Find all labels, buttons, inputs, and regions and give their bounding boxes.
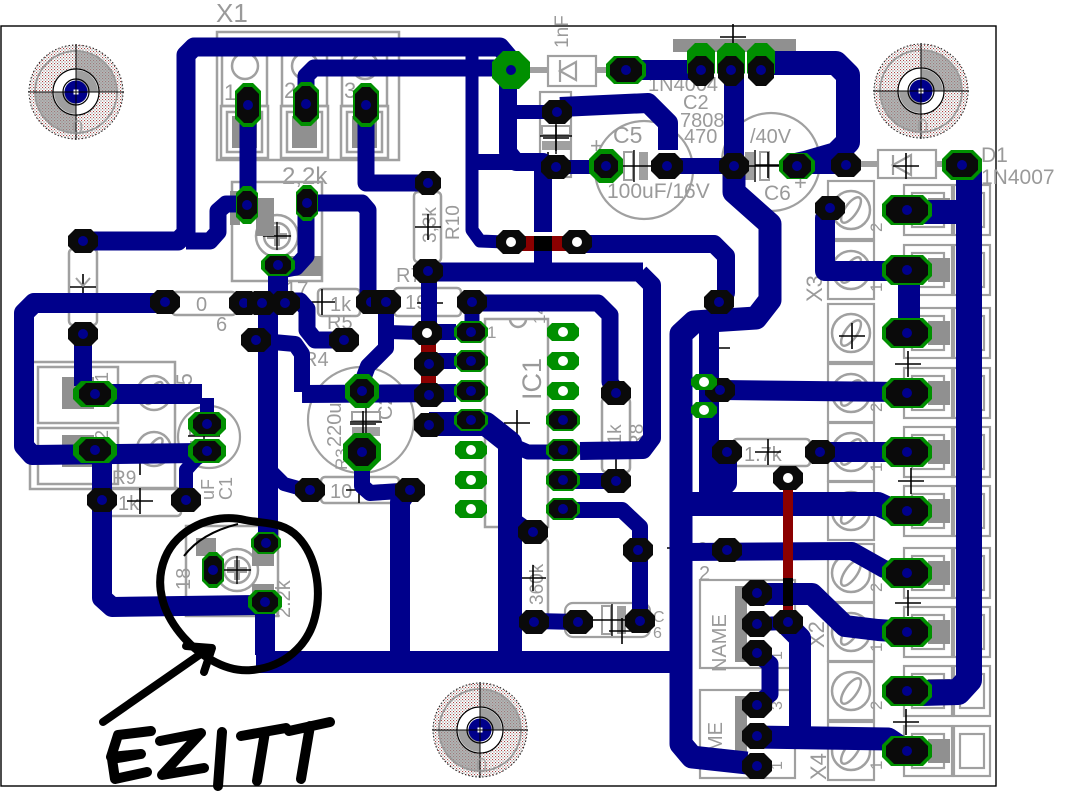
wire net1 trimmer branch bbox=[186, 204, 242, 241]
pad IC1 pin8 bbox=[546, 498, 580, 520]
wire R17 wiper bbox=[266, 264, 278, 543]
wire IC1 row7 bbox=[562, 510, 640, 615]
pad C1 top bbox=[188, 412, 226, 436]
via net1 bbox=[68, 229, 98, 253]
screw terminal y270 bbox=[832, 251, 870, 289]
svg-text:1: 1 bbox=[867, 283, 886, 292]
svg-text:IC1: IC1 bbox=[517, 358, 547, 400]
resistor R7 outline bbox=[394, 288, 461, 316]
screw terminal y333 bbox=[832, 314, 870, 352]
wire P2 branch bbox=[699, 326, 719, 499]
pad C8 right bbox=[625, 609, 655, 633]
drill mark row303 bbox=[309, 289, 335, 315]
pad C6 plus bbox=[779, 153, 815, 179]
pad R5 left bbox=[270, 291, 300, 315]
pad R11 bottom bbox=[519, 610, 549, 634]
screw terminal y691 bbox=[832, 672, 870, 710]
wire X1 pin3 bbox=[366, 106, 420, 183]
wire IC1 row2 bbox=[429, 353, 456, 369]
svg-text:1.7k: 1.7k bbox=[744, 444, 783, 466]
pad X1-1 bbox=[235, 83, 261, 127]
drill mark R11 bbox=[520, 565, 546, 591]
drill mark D1 bbox=[893, 153, 919, 179]
svg-text:1: 1 bbox=[224, 80, 236, 105]
pad X6 y736 bbox=[742, 723, 772, 749]
pad R2 right bbox=[395, 478, 425, 502]
svg-text:2: 2 bbox=[867, 223, 886, 232]
pad IC2-2 bbox=[717, 43, 745, 86]
resistor R2 outline bbox=[321, 477, 399, 503]
wire D1 elbow bbox=[908, 200, 956, 224]
wire right band bbox=[908, 166, 969, 693]
wire band y274 bbox=[427, 263, 643, 282]
drill mark R9 bbox=[127, 488, 153, 514]
wire IC1 row1 bbox=[438, 324, 456, 340]
diode D1 leads bbox=[850, 161, 958, 167]
connector X5 screw slots bbox=[142, 379, 165, 406]
pad X6 y705 bbox=[742, 692, 772, 718]
svg-text:1: 1 bbox=[92, 372, 112, 382]
pad X2 bank y751 bbox=[882, 736, 932, 766]
capacitor C5 circle bbox=[595, 121, 693, 219]
wire net1 main bbox=[83, 47, 511, 241]
pad JP2 bbox=[691, 402, 717, 418]
wire X3 link bbox=[825, 210, 900, 271]
svg-text:6: 6 bbox=[216, 314, 227, 336]
pad IC2-3 bbox=[747, 43, 775, 86]
svg-text:18: 18 bbox=[173, 568, 195, 590]
wire R17 right a bbox=[310, 203, 368, 296]
svg-text:0: 0 bbox=[917, 116, 928, 138]
svg-text:2: 2 bbox=[867, 403, 886, 412]
wire X6 link bbox=[757, 594, 893, 631]
wire X1 pin2 bbox=[306, 68, 502, 86]
drill mark R7 bbox=[417, 290, 443, 316]
pad red column a bbox=[414, 352, 444, 376]
pad D2 cathode bbox=[606, 56, 646, 84]
drill mark C3 bbox=[543, 125, 569, 151]
pad IC1 pin6 bbox=[455, 471, 487, 489]
svg-text:X1: X1 bbox=[216, 0, 248, 28]
via red column bbox=[412, 321, 442, 345]
wire band P2 bbox=[681, 168, 770, 763]
pad C4 plus bbox=[345, 374, 379, 408]
pad IC1 row4 via bbox=[414, 413, 444, 437]
svg-text:3,3k: 3,3k bbox=[420, 207, 441, 243]
annotation arrow bbox=[103, 651, 205, 722]
capacitor C3 symbol bbox=[540, 122, 572, 154]
wire R7 to C4 bbox=[362, 303, 386, 382]
drill mark C5b bbox=[535, 152, 561, 178]
resistor R9 outline bbox=[102, 488, 181, 516]
svg-text:C6: C6 bbox=[764, 182, 791, 205]
drill mark R2 bbox=[346, 477, 372, 503]
wire X3 stub bbox=[898, 272, 920, 331]
svg-text:220u: 220u bbox=[324, 403, 346, 448]
drill mark R12 bbox=[755, 439, 781, 465]
pad R6 left bbox=[150, 290, 180, 314]
via H2b bbox=[623, 538, 653, 562]
pad R6 right bbox=[229, 291, 259, 315]
wire net1 thin branch bbox=[472, 52, 505, 242]
svg-text:6: 6 bbox=[653, 625, 662, 642]
wire big vertical mid bbox=[400, 493, 406, 658]
capacitor C3 outline bbox=[540, 92, 571, 177]
wire via up bbox=[262, 341, 302, 392]
pad X6 y766 bbox=[742, 753, 772, 779]
svg-text:2: 2 bbox=[699, 563, 710, 585]
drill mark C4 bbox=[350, 411, 376, 437]
svg-text:D1: D1 bbox=[981, 144, 1008, 167]
svg-text:1: 1 bbox=[867, 643, 886, 652]
wire IC2 pin2 down bbox=[724, 73, 744, 158]
pad X6 y624 bbox=[742, 611, 772, 637]
pad C5 minus bbox=[651, 153, 683, 179]
wire y162 bbox=[474, 154, 543, 170]
wire row303 to R8 bbox=[474, 303, 616, 391]
wire IC2 pin3 bbox=[763, 63, 848, 165]
wire y452 bbox=[820, 442, 900, 462]
drill mark P2 bbox=[704, 335, 730, 361]
pad R2 left bbox=[295, 478, 325, 502]
pad IC1 pin12 bbox=[547, 382, 579, 400]
resistor R10 outline bbox=[414, 192, 441, 262]
red trace R-column bbox=[421, 343, 436, 405]
capacitor C1 circle bbox=[178, 406, 240, 468]
mounting hole bottom bbox=[432, 682, 528, 778]
connector bank fills bbox=[928, 198, 950, 763]
pad R12 left bbox=[712, 440, 742, 464]
wire C3 bottom bbox=[558, 160, 597, 174]
pad C4 minus bbox=[343, 433, 381, 471]
svg-text:NAME: NAME bbox=[709, 614, 731, 672]
pad X2 bank y452 bbox=[882, 437, 932, 467]
drill mark X1 pin2 bbox=[297, 105, 315, 123]
trimmer R17 fills bbox=[230, 191, 322, 276]
op-amp IC1 outline bbox=[485, 319, 548, 527]
pad X2 bank y511 bbox=[882, 496, 932, 526]
trimmer R18 fills bbox=[196, 538, 274, 602]
wire IC1 row1 left bbox=[388, 332, 420, 333]
connector X5 fills bbox=[62, 377, 94, 467]
via P2 bbox=[704, 290, 734, 314]
wire via chain bbox=[579, 244, 726, 301]
drill mark X2c bbox=[895, 590, 921, 616]
pad X1-3 bbox=[353, 83, 379, 127]
pad red2 bottom bbox=[773, 610, 803, 634]
diode D2 leads bbox=[522, 67, 622, 73]
pad R9 left bbox=[87, 488, 117, 512]
pad X2 bank y333 bbox=[882, 318, 932, 348]
svg-text:1nF: 1nF bbox=[552, 15, 573, 48]
trimmer R17 outline bbox=[232, 182, 322, 281]
pad IC1 pin4 bbox=[454, 409, 488, 431]
svg-text:2: 2 bbox=[867, 583, 886, 592]
wire H2 bbox=[686, 551, 905, 573]
drill mark IC2 bbox=[720, 24, 746, 50]
connector X5 outline bbox=[30, 362, 175, 489]
wire row4 chain bbox=[429, 424, 510, 658]
diode D2 outline bbox=[548, 56, 596, 86]
wire row303 b bbox=[262, 295, 285, 311]
via red bottom bbox=[562, 230, 592, 254]
annotation circle bbox=[160, 518, 318, 670]
pad X5-1 bbox=[73, 381, 117, 407]
wire row303 a bbox=[244, 295, 262, 311]
pad D2 anode bbox=[492, 51, 530, 89]
pad IC1 pin2 bbox=[454, 350, 488, 372]
svg-text:1k: 1k bbox=[118, 493, 140, 515]
capacitor C5 symbol bbox=[614, 150, 658, 182]
pad X2 bank y210 bbox=[882, 195, 932, 225]
screw terminal y511 bbox=[832, 492, 870, 530]
wire X6 pads link bbox=[760, 623, 786, 624]
pad R18 top bbox=[251, 532, 281, 554]
wire C4 bottom bbox=[362, 452, 400, 493]
wire X5 pad1 row bbox=[95, 384, 202, 404]
svg-text:1: 1 bbox=[867, 463, 886, 472]
pad R7 left bbox=[371, 290, 401, 314]
pad X2 bank y632 bbox=[882, 617, 932, 647]
svg-text:C1: C1 bbox=[216, 477, 236, 500]
pad D1 anode bbox=[831, 153, 861, 177]
trimmer R18 screw cross bbox=[227, 560, 247, 580]
drill mark X2a bbox=[895, 351, 921, 377]
capacitor C8 outline bbox=[565, 603, 650, 637]
wire X6 bottom H bbox=[757, 737, 903, 749]
pad X2 bank y393 bbox=[882, 378, 932, 408]
pad X1-2 bbox=[293, 82, 319, 126]
pad R1 bottom bbox=[68, 322, 98, 346]
pad IC2-1 bbox=[687, 43, 715, 86]
via red top bbox=[496, 230, 526, 254]
via X3 bbox=[815, 196, 845, 220]
svg-text:R10: R10 bbox=[443, 205, 464, 240]
wire y390 bbox=[722, 390, 900, 392]
pad red column b bbox=[414, 383, 444, 407]
drill mark IC2b bbox=[839, 323, 865, 349]
wire R2 left elbow bbox=[270, 470, 302, 489]
svg-text:470: 470 bbox=[684, 126, 717, 148]
drill mark R10 bbox=[415, 214, 441, 240]
wire left L bbox=[24, 303, 200, 455]
resistor R1 outline bbox=[69, 249, 97, 325]
wire C6 to D1 bbox=[797, 158, 846, 174]
wire C1 link bbox=[200, 398, 214, 420]
screw terminal y393 bbox=[832, 374, 870, 412]
pad X2 bank y691 bbox=[882, 676, 932, 706]
pad R17 wiper bbox=[261, 254, 295, 276]
svg-text:2: 2 bbox=[867, 701, 886, 710]
wire R17 right b bbox=[280, 212, 306, 270]
pad R7 right bbox=[457, 290, 487, 314]
capacitor C8 symbol bbox=[592, 604, 636, 636]
pad R12 right bbox=[805, 440, 835, 464]
pad C3 bottom bbox=[541, 155, 571, 179]
svg-text:C5: C5 bbox=[613, 122, 642, 148]
mounting hole top-right bbox=[873, 43, 969, 139]
pad X2 bank y573 bbox=[882, 558, 932, 588]
svg-text:R9: R9 bbox=[112, 468, 136, 489]
drill mark C6b bbox=[755, 152, 781, 178]
connector X1 outline bbox=[217, 32, 399, 160]
wire C5 to C6 bbox=[667, 158, 734, 174]
wire R11 bottom row bbox=[535, 621, 578, 622]
capacitor C4 circle bbox=[308, 367, 414, 473]
capacitor C1 symbol bbox=[188, 422, 220, 454]
drill mark C8 bbox=[609, 618, 635, 644]
wire R5 chain bbox=[287, 301, 338, 340]
mounting hole top-left bbox=[28, 44, 124, 140]
wire R7 right down bbox=[465, 303, 480, 330]
trimmer R18 outline bbox=[186, 526, 278, 616]
connector X6 fills bbox=[735, 586, 747, 772]
wire R9 link bbox=[186, 453, 205, 500]
pad R5 right bbox=[356, 290, 386, 314]
wire X6 jog bbox=[757, 654, 770, 704]
drill mark X5 bbox=[127, 449, 153, 475]
pad IC1 pin1 bbox=[454, 321, 488, 343]
pad IC1 pin10 bbox=[546, 439, 580, 461]
connector X1 clamp fills bbox=[232, 116, 377, 148]
pad R17 left bbox=[236, 186, 258, 224]
via row3 left bbox=[241, 328, 271, 352]
connector bank X2 X3 X4 outlines bbox=[828, 181, 990, 780]
pad R11 top bbox=[518, 520, 548, 544]
wire X5 branch down bbox=[102, 452, 266, 607]
wire net2 top bbox=[630, 60, 696, 80]
wire band H1 bbox=[672, 504, 906, 511]
svg-text:0: 0 bbox=[476, 755, 487, 777]
svg-text:1N4007: 1N4007 bbox=[981, 166, 1055, 189]
svg-text:1: 1 bbox=[867, 761, 886, 770]
wire IC1 row6 bbox=[563, 473, 613, 489]
wire C3top C5minus bbox=[560, 103, 668, 150]
drill mark IC1 bbox=[504, 410, 530, 436]
wire IC1 row3 bbox=[302, 393, 456, 394]
svg-text:360k: 360k bbox=[527, 563, 548, 605]
wire H3 bottom bbox=[256, 651, 680, 673]
pad IC1 pin11 bbox=[546, 409, 580, 431]
via H2 bbox=[712, 538, 742, 562]
svg-text:10: 10 bbox=[330, 481, 352, 503]
pad R18 wiper bbox=[248, 590, 282, 614]
wire R18 to H3 bbox=[255, 600, 275, 655]
wire band to row5 bbox=[580, 273, 652, 451]
svg-text:0: 0 bbox=[72, 117, 83, 139]
pad R17 right bbox=[296, 185, 318, 221]
pad R10 bottom bbox=[413, 259, 443, 283]
pad C8 left bbox=[563, 610, 593, 634]
pad C3 top bbox=[542, 100, 572, 124]
pad IC1 pin14 bbox=[547, 323, 579, 341]
wire D1 to band bbox=[960, 157, 975, 173]
drill mark X2d bbox=[893, 709, 919, 735]
svg-text:1: 1 bbox=[487, 323, 496, 342]
wire net1 down bbox=[508, 70, 543, 232]
pad X6 y593 bbox=[742, 580, 772, 606]
drill mark R8 bbox=[603, 445, 629, 471]
pad JP1 bbox=[691, 374, 717, 390]
via y390 bbox=[705, 378, 735, 402]
capacitor C6 symbol bbox=[735, 150, 779, 182]
pad X2 bank y270 bbox=[882, 255, 932, 285]
wire row5 branch bbox=[514, 446, 560, 452]
wire net1 under red bbox=[534, 248, 552, 274]
resistor R11 outline bbox=[519, 539, 548, 617]
pad C5 plus bbox=[589, 149, 623, 183]
svg-text:X4: X4 bbox=[806, 753, 831, 780]
wire R1 down bbox=[74, 334, 92, 386]
capacitor C6 circle bbox=[722, 113, 820, 211]
pad IC1 pin5 bbox=[455, 441, 487, 459]
pad IC1 pin7 bbox=[455, 500, 487, 518]
screw terminal y452 bbox=[832, 433, 870, 471]
pad R10 top bbox=[415, 171, 441, 195]
pad R8 bottom bbox=[601, 469, 631, 493]
pad C6 minus bbox=[719, 153, 749, 179]
red jumper top bbox=[503, 236, 585, 251]
drill mark X2b bbox=[898, 468, 924, 494]
pad C1 bottom bbox=[188, 439, 226, 463]
trimmer R17 screw cross bbox=[267, 226, 287, 246]
via red2 top bbox=[773, 466, 803, 490]
svg-text:100uF/16V: 100uF/16V bbox=[607, 180, 710, 203]
drill mark band bbox=[667, 535, 693, 561]
pad R18 left bbox=[202, 552, 224, 588]
resistor R6 outline bbox=[172, 292, 236, 315]
wire R11 top link bbox=[512, 518, 535, 538]
pad R8 top bbox=[601, 381, 631, 405]
pad X6 y653 bbox=[742, 640, 772, 666]
screw terminal y210 bbox=[832, 191, 870, 229]
resistor R8 outline bbox=[602, 398, 630, 472]
screw terminal y632 bbox=[832, 613, 870, 651]
resistor R1 tick bbox=[76, 278, 90, 286]
resistor R5 outline bbox=[318, 289, 360, 316]
diode D1 outline bbox=[878, 150, 936, 178]
pad R4 top bbox=[329, 328, 359, 352]
connector X6 outline bbox=[700, 580, 795, 778]
resistor R12 outline bbox=[733, 439, 810, 466]
svg-text:/40V: /40V bbox=[750, 126, 792, 148]
wire R10 to via bbox=[421, 274, 437, 330]
capacitor C4 symbol bbox=[350, 408, 382, 440]
drill mark R1 bbox=[70, 274, 96, 300]
pad IC1 pin3 bbox=[454, 380, 488, 402]
pad D1 cathode bbox=[942, 150, 982, 180]
red trace bottom bbox=[783, 487, 793, 578]
annotation EZ ITT bbox=[111, 722, 330, 786]
screw terminal y751 bbox=[832, 732, 870, 770]
screw terminal y573 bbox=[832, 554, 870, 592]
regulator IC2 tab bbox=[673, 39, 796, 52]
wire X6 down bbox=[788, 626, 800, 728]
pad IC1 pin13 bbox=[547, 352, 579, 370]
wire branch C3 top bbox=[512, 105, 546, 119]
pad X5-2 bbox=[73, 437, 117, 463]
pad IC1 pin9 bbox=[546, 469, 580, 491]
wire X1 pin1 bbox=[240, 107, 257, 198]
svg-text:0: 0 bbox=[196, 294, 207, 316]
via row303 bbox=[247, 291, 277, 315]
wire R12 left down bbox=[709, 452, 727, 493]
pad R9 right bbox=[171, 488, 201, 512]
